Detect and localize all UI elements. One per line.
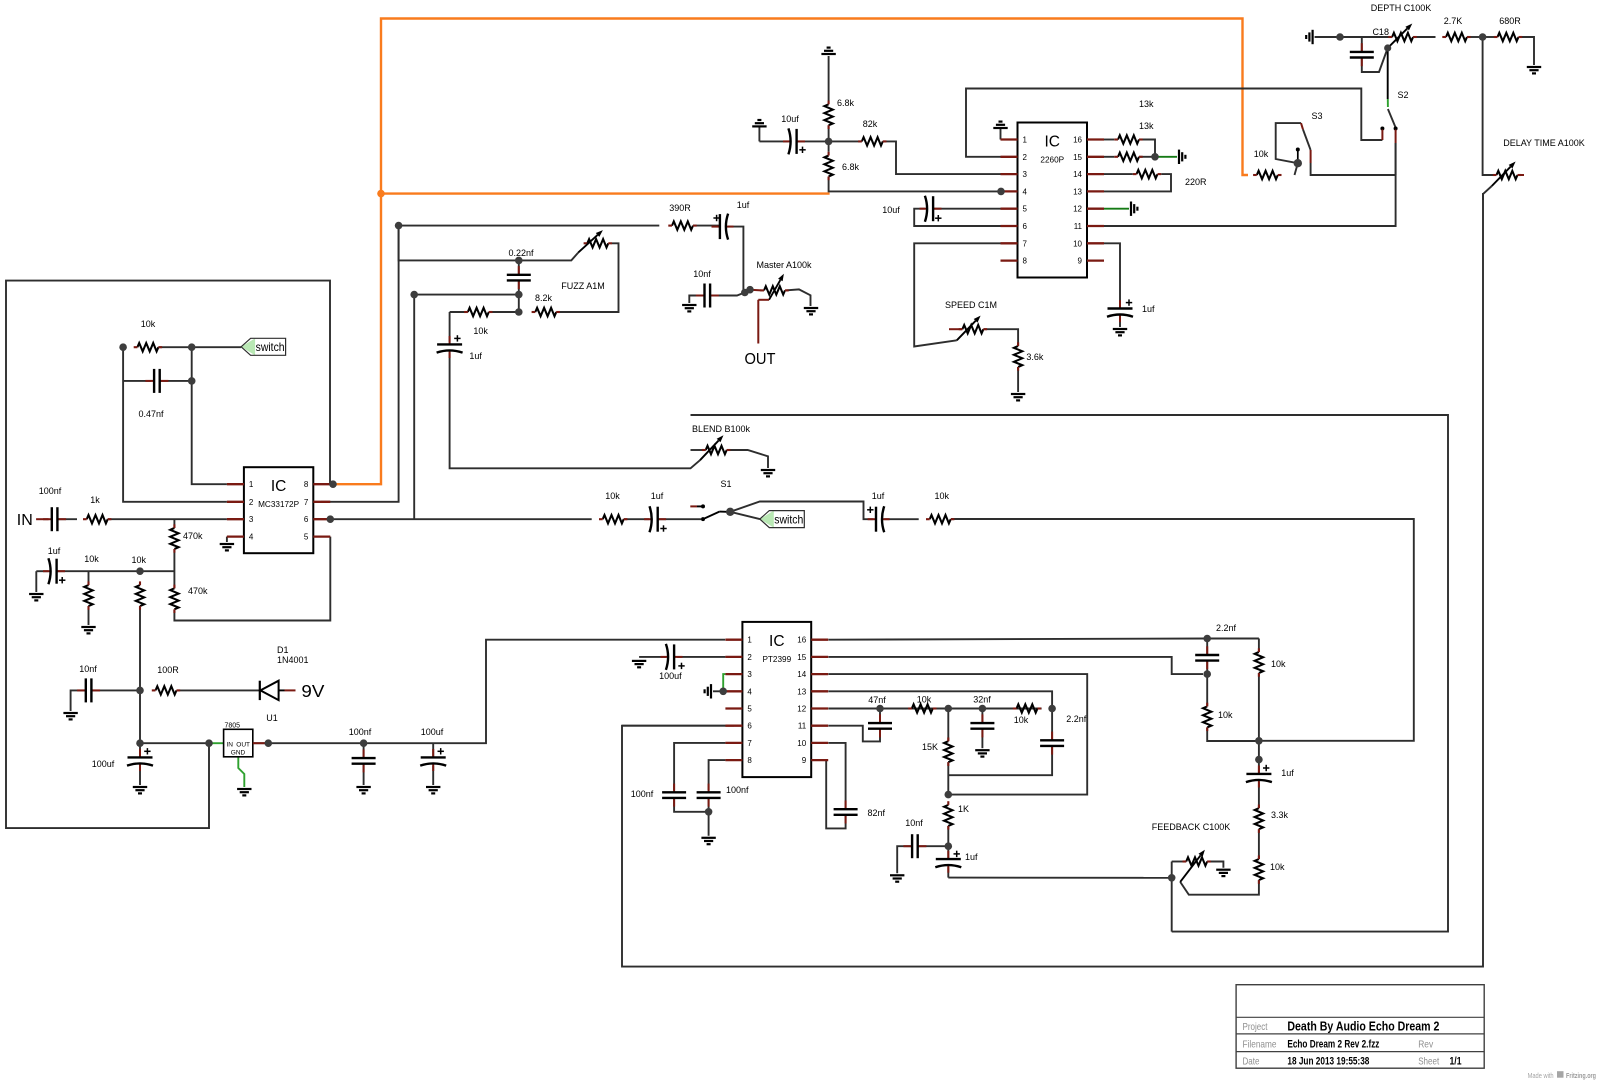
wire 47nf stem [879, 709, 881, 724]
svg-text:Sheet: Sheet [1418, 1056, 1439, 1068]
junction fb node [1255, 737, 1263, 745]
wire junction down to delay pot [1483, 37, 1497, 175]
svg-text:82k: 82k [863, 119, 878, 129]
junction 2.7K/680R [1479, 33, 1487, 41]
ground pin12 (rotated) [1131, 202, 1137, 216]
wire 1uf pt top [947, 846, 949, 859]
svg-text:Date: Date [1243, 1056, 1260, 1068]
ground 10nf supply [63, 713, 77, 719]
potentiometer FEEDBACK C100K [1180, 850, 1211, 882]
wire delay wiper down [1483, 186, 1492, 200]
wire 10k to switch-flag node [158, 346, 241, 348]
capacitor 82nf [834, 801, 886, 824]
junction 2.2nf bottom [1203, 670, 1211, 678]
svg-text:Project: Project [1243, 1021, 1268, 1033]
svg-text:S1: S1 [720, 479, 731, 489]
text DELAY TIME A100K [1503, 138, 1585, 148]
wire pin14 to 220R [1104, 173, 1133, 175]
svg-text:8: 8 [1023, 257, 1028, 266]
wire speed right to 3.6k [983, 329, 1018, 346]
text 13k lower [1139, 121, 1154, 131]
ground 7805 [237, 789, 251, 795]
text FEEDBACK C100K [1152, 822, 1231, 832]
text 1K [958, 804, 969, 814]
junction 10k/0.47nf left [119, 343, 127, 351]
svg-text:Filename: Filename [1243, 1038, 1277, 1050]
svg-text:IC: IC [271, 478, 287, 495]
wire pin3 loop to pin4 node [723, 674, 725, 691]
wire 32nf stem [981, 709, 983, 724]
wire pin5 to 10uf [933, 208, 1000, 210]
svg-text:1uf: 1uf [469, 351, 482, 361]
svg-text:switch: switch [774, 512, 803, 526]
svg-text:Rev: Rev [1418, 1038, 1434, 1050]
svg-text:10k: 10k [84, 554, 99, 564]
wire junction to depth pot [1340, 36, 1392, 38]
wire 10k fuzz to junction [489, 311, 519, 313]
ground 1uf pin10 [1113, 329, 1127, 335]
wire 100uf pre-reg top [139, 743, 141, 757]
wire pin4 node to ground [713, 690, 723, 692]
wire 2.2nf stems [1206, 639, 1208, 656]
wire node to 82k [829, 140, 862, 142]
resistor 3.3k [1255, 805, 1263, 833]
svg-text:100uf: 100uf [421, 727, 444, 737]
svg-text:7: 7 [304, 498, 309, 507]
svg-text:FEEDBACK C100K: FEEDBACK C100K [1152, 822, 1231, 832]
wire 0.22nf stem bottom [518, 280, 520, 294]
svg-text:DEPTH C100K: DEPTH C100K [1371, 3, 1432, 13]
svg-text:10nf: 10nf [79, 664, 97, 674]
wire 2.2nf stem2 [1206, 661, 1208, 675]
wire 220R loop to pin13 [1104, 174, 1171, 191]
wire 10k fuzz left [450, 311, 468, 313]
wire blend left to box [691, 449, 706, 451]
wire 15K top [947, 709, 949, 742]
svg-text:47nf: 47nf [868, 695, 886, 705]
svg-text:13k: 13k [1139, 121, 1154, 131]
wire pin10 loop to 82nf [828, 743, 845, 809]
wire 10uf to node [797, 140, 829, 142]
wire 6.8k lower to orange node [829, 177, 1001, 192]
wire 10k fb-right stems [1258, 639, 1260, 653]
wire pin11 to S2 right throw [1104, 143, 1396, 226]
svg-text:Echo Dream 2 Rev 2.fzz: Echo Dream 2 Rev 2.fzz [1287, 1038, 1379, 1050]
svg-text:8.2k: 8.2k [535, 293, 553, 303]
svg-text:4: 4 [249, 533, 254, 542]
svg-text:32nf: 32nf [973, 695, 991, 705]
wire master right to ground [785, 289, 811, 306]
svg-text:8: 8 [747, 756, 752, 765]
svg-text:1uf: 1uf [1142, 304, 1155, 314]
wire 1uf fb to 3.3k [1258, 782, 1260, 808]
capacitor C18 [1350, 27, 1389, 66]
text IN net label [17, 512, 33, 529]
resistor 82k [858, 119, 886, 146]
resistor 6.8k lower [824, 152, 832, 180]
text 10k s3 [1254, 149, 1269, 159]
net flag switch (IC1) [241, 338, 286, 355]
svg-text:2.2nf: 2.2nf [1216, 623, 1237, 633]
capacitor 10uf bias (polarized) [781, 114, 805, 154]
text 6.8k lower [842, 162, 860, 172]
svg-text:100uf: 100uf [92, 759, 115, 769]
wire 680R to ground [1519, 37, 1535, 65]
ground 10nf master [682, 305, 696, 311]
svg-text:10k: 10k [1271, 659, 1286, 669]
svg-text:2.2nf: 2.2nf [1066, 714, 1087, 724]
svg-text:10k: 10k [605, 491, 620, 501]
capacitor 10nf supply [77, 664, 100, 702]
wire 1uf pin10 to ground [1119, 317, 1121, 327]
capacitor 0.47nf [138, 369, 168, 419]
capacitor 0.22nf [507, 248, 534, 289]
wire 10nf master left to ground [689, 296, 704, 304]
junction IC1 pin8 / box / orange [329, 480, 337, 488]
wire feedback right to ground [1207, 862, 1223, 868]
svg-text:OUT: OUT [745, 351, 777, 368]
wire 1uf pt bottom [947, 867, 949, 877]
wire pin10 to 1uf [1104, 243, 1120, 306]
svg-text:4: 4 [1023, 187, 1028, 196]
IC 2260P [1001, 123, 1105, 278]
text 3.3k [1271, 810, 1289, 820]
svg-text:3: 3 [747, 670, 752, 679]
wire 3.6k to ground [1017, 367, 1019, 392]
wire 1uf-pt to feedback [948, 877, 1171, 879]
junction 0.22nf bottom [515, 291, 523, 299]
junction master node b [746, 286, 754, 294]
svg-text:3: 3 [1023, 170, 1028, 179]
capacitor 100uf pt-supply (polarized) [659, 644, 685, 681]
svg-text:10k: 10k [1014, 715, 1029, 725]
wire 10nf to node [91, 689, 140, 691]
wire feedback left [1172, 861, 1187, 863]
svg-text:9: 9 [1078, 257, 1083, 266]
junction node A at 0.47nf [188, 377, 196, 385]
svg-text:9: 9 [802, 756, 807, 765]
wire 2.2nf mid stem [1051, 709, 1053, 741]
wire node to 7805 IN [140, 742, 207, 744]
junction 100R node [136, 687, 144, 695]
wire IC1 pin7 up to node B [321, 226, 399, 502]
svg-text:IN: IN [227, 742, 234, 749]
svg-text:7: 7 [1023, 239, 1028, 248]
svg-text:3: 3 [249, 515, 254, 524]
svg-text:S3: S3 [1311, 111, 1322, 121]
junction S1 common [726, 508, 734, 516]
wire 10nf pt to ground [897, 846, 912, 873]
wire 470k top to pin3 row [173, 519, 175, 528]
wire pin12 to ground rot [1104, 208, 1129, 210]
ground 1uf bias [29, 594, 43, 600]
wire 1uf bias left to ground [35, 571, 37, 592]
text DEPTH C100K [1371, 3, 1432, 13]
resistor 10k fuzz [464, 308, 492, 336]
text 10k fb-right [1271, 659, 1286, 669]
resistor 220R [1133, 170, 1161, 178]
junction fb node2 [1255, 756, 1263, 764]
svg-text:10k: 10k [1218, 710, 1233, 720]
resistor 13k upper [1114, 135, 1142, 143]
wire bias row left [36, 570, 48, 572]
ground master [804, 308, 818, 314]
wire 1uf to 10k s1row-b [884, 518, 919, 520]
svg-text:2260P: 2260P [1040, 156, 1064, 165]
wire 10k fb-left bottom [1207, 727, 1259, 741]
wire IC1 pin2 loop to 0.47nf/10k [123, 347, 227, 502]
op-amp IC1 MC33172P [227, 467, 330, 553]
switch S1 [690, 504, 727, 521]
svg-text:5: 5 [1023, 205, 1028, 214]
wire 10k fb-bot to feedback wiper [1180, 880, 1259, 895]
wire 1uf fb top [1258, 760, 1260, 774]
wire IC1 pin5 down-around to 470k bottom [174, 537, 330, 621]
svg-text:Made with: Made with [1528, 1071, 1554, 1080]
potentiometer DELAY TIME A100K [1492, 162, 1524, 187]
junction pin4 node [997, 188, 1005, 196]
wire bias row [57, 570, 175, 572]
resistor 10k fb-left [1203, 703, 1211, 731]
svg-text:16: 16 [797, 636, 806, 645]
wire C18 gnd to junction [1315, 36, 1340, 38]
svg-text:10k: 10k [934, 491, 949, 501]
capacitor 1uf s1-left (polarized) [644, 491, 667, 532]
junction master node a [741, 289, 749, 297]
resistor 10k feedback [134, 319, 162, 351]
svg-text:9V: 9V [301, 681, 324, 701]
capacitor 1uf pin10 (polarized) [1107, 299, 1155, 322]
wire 2.2nf to 10k fb-left [1206, 674, 1208, 706]
svg-text:12: 12 [797, 705, 806, 714]
wire 10k fb-right bottom [1258, 673, 1260, 760]
capacitor 100nf pt-b [697, 784, 749, 807]
wire 10k bias-a to ground [88, 571, 90, 585]
svg-text:PT2399: PT2399 [762, 655, 791, 664]
wire 100uf left to ground [639, 656, 666, 658]
svg-text:2: 2 [1023, 153, 1028, 162]
resistor 100R [152, 665, 180, 695]
ground pin4 (rotated left) [705, 684, 711, 698]
ground 10uf bias (inverted) [752, 120, 766, 126]
svg-text:6.8k: 6.8k [837, 98, 855, 108]
svg-text:470k: 470k [188, 586, 208, 596]
wire 0.47nf left leg [123, 380, 151, 382]
resistor 3.6k [1014, 342, 1022, 370]
svg-text:switch: switch [256, 340, 285, 354]
wire 1uf to master node [728, 227, 743, 292]
svg-text:3.6k: 3.6k [1026, 352, 1044, 362]
svg-text:MC33172P: MC33172P [258, 500, 300, 509]
svg-text:1uf: 1uf [48, 546, 61, 556]
svg-text:GND: GND [231, 750, 246, 757]
capacitor 10uf pin5 (polarized) [882, 196, 941, 222]
svg-text:1/1: 1/1 [1450, 1056, 1462, 1068]
capacitor 10nf pt [903, 818, 926, 858]
wire 15K bottom [947, 762, 949, 794]
svg-text:2: 2 [747, 653, 752, 662]
svg-text:10nf: 10nf [905, 818, 923, 828]
wire 82k to pin3 [883, 141, 1001, 174]
wire 10nf master right [710, 293, 745, 296]
ground 10nf pt [890, 875, 904, 881]
junction 100nf pair [705, 808, 713, 816]
svg-text:D1: D1 [277, 645, 289, 655]
junction 1K top [945, 791, 953, 799]
wire 32nf to ground [981, 729, 983, 749]
wire 3.3k to 10k fb-bot [1258, 829, 1260, 859]
wire 100nf pair to ground [708, 812, 710, 836]
wire 6.8k divider top gnd stem [828, 56, 830, 101]
svg-text:C18: C18 [1372, 27, 1389, 37]
svg-text:18 Jun 2013 19:55:38: 18 Jun 2013 19:55:38 [1287, 1056, 1369, 1068]
ground 3.6k [1011, 394, 1025, 400]
ground 100uf pre-reg [133, 787, 147, 793]
svg-text:13k: 13k [1139, 99, 1154, 109]
wire 8.2k to fuzz right [556, 243, 618, 312]
wire 10k to 1uf s1 [624, 518, 650, 520]
wire node B down/right to fuzz wiper [399, 226, 579, 261]
junction 8.2k row [515, 308, 523, 316]
wire 10nf left to ground [71, 690, 86, 711]
ground 10k bias-a [81, 627, 95, 633]
capacitor 100nf pt-a [631, 784, 686, 807]
junction 15K top [945, 705, 953, 713]
svg-text:BLEND B100k: BLEND B100k [692, 424, 751, 434]
svg-text:6: 6 [747, 722, 752, 731]
junction orange net [377, 190, 385, 198]
wire input-section enclosure loop [6, 281, 330, 829]
wire pin8 down to 100nf-b [709, 760, 726, 790]
resistor 1k input [83, 495, 111, 523]
svg-text:1: 1 [249, 480, 254, 489]
wire pin6 left [622, 725, 725, 727]
wire node A down to 0.47nf [192, 347, 227, 484]
ground 100uf pt [632, 661, 646, 667]
svg-text:7805: 7805 [225, 723, 241, 730]
text 470k lower [188, 586, 208, 596]
resistor 10k fb-bot [1255, 855, 1263, 883]
wire node B to 390R [399, 225, 660, 227]
resistor 2.7K [1442, 16, 1470, 41]
wire 0.22nf row to left drop [414, 294, 519, 296]
resistor 13k lower [1114, 153, 1142, 161]
svg-text:1N4001: 1N4001 [277, 655, 309, 665]
wire 82nf bottom to pin9 [826, 760, 845, 828]
wire feedback net vertical [1171, 862, 1173, 932]
svg-text:1uf: 1uf [872, 491, 885, 501]
text 13k upper [1139, 99, 1154, 109]
wire 0.47nf right leg [160, 380, 192, 382]
resistor 10k mid-a [908, 695, 936, 713]
svg-text:10k: 10k [917, 695, 932, 705]
capacitor 1uf bias (polarized) [43, 546, 65, 584]
capacitor 2.2nf fb-top [1195, 623, 1236, 669]
wire 100uf post-reg top [432, 743, 434, 757]
wire 1uf to S1 contact [658, 518, 701, 520]
svg-text:OUT: OUT [236, 742, 250, 749]
wire pin13 loop [828, 691, 1052, 708]
svg-text:S2: S2 [1397, 90, 1408, 100]
svg-text:8: 8 [304, 480, 309, 489]
wire 10uf ground stem [758, 127, 760, 141]
wire 2.7K to junction [1467, 36, 1483, 38]
wire S1 to switch flag [730, 512, 760, 519]
svg-text:470k: 470k [183, 531, 203, 541]
ground 100nf pair [701, 838, 715, 844]
wire junction to ground rot [1155, 156, 1177, 158]
svg-text:1: 1 [1023, 136, 1028, 145]
wire 10uf loop to pin6 [914, 209, 1000, 226]
wire 6.8k lower stems [828, 141, 830, 151]
wire pin15 to 13k lower [1104, 156, 1114, 158]
capacitor 100nf post-reg [349, 727, 376, 772]
wire S2 net vertical [1395, 143, 1397, 175]
text S1 [720, 479, 731, 489]
svg-text:11: 11 [798, 722, 807, 731]
capacitor 32nf [970, 695, 994, 738]
svg-text:1uf: 1uf [651, 491, 664, 501]
wire pin1 ground stem [1000, 128, 1002, 140]
resistor 390R [668, 203, 696, 230]
capacitor 47nf [868, 695, 892, 737]
junction S3 common [1294, 159, 1302, 167]
wire pin12 row [828, 708, 1041, 710]
resistor 470k lower [170, 585, 178, 613]
svg-text:1K: 1K [958, 804, 969, 814]
potentiometer DEPTH C100K [1388, 24, 1417, 49]
wire C18 stem top [1361, 37, 1363, 52]
capacitor 10nf master [693, 269, 719, 308]
wire 100uf post-reg to ground [432, 766, 434, 785]
junction bias row at 10k-2 [136, 567, 144, 575]
wire pin14 loop [828, 674, 1087, 795]
svg-text:4: 4 [747, 687, 752, 696]
resistor 10k fb-right [1255, 648, 1263, 676]
svg-text:1k: 1k [90, 495, 100, 505]
wire 0.22nf stem top [518, 260, 520, 274]
svg-text:15: 15 [797, 653, 806, 662]
wire 7805 GND lead [238, 757, 244, 787]
ground IC1 pin4 [220, 544, 234, 550]
wire 100uf pre-reg to ground [139, 766, 141, 785]
wire 10nf pt right [918, 845, 949, 847]
svg-text:6: 6 [1023, 222, 1028, 231]
svg-text:10k: 10k [1270, 862, 1285, 872]
junction 100nf post-reg [360, 739, 368, 747]
wire OUT stub [757, 300, 759, 344]
ground 680R [1527, 67, 1541, 73]
svg-text:10nf: 10nf [693, 269, 711, 279]
capacitor 1uf pt (polarized) [935, 851, 978, 873]
resistor 6.8k upper [824, 101, 832, 129]
svg-text:13: 13 [1073, 187, 1082, 196]
junction 2.2nf mid [1048, 705, 1056, 713]
wire pin6 row to S1 [330, 518, 591, 520]
svg-text:10uf: 10uf [882, 205, 900, 215]
text 10k fb-left [1218, 710, 1233, 720]
svg-text:10k: 10k [1254, 149, 1269, 159]
svg-text:2: 2 [249, 498, 254, 507]
junction 7805 IN node [205, 739, 213, 747]
junction left drop [410, 291, 418, 299]
wire delay bottom long run [622, 193, 1483, 967]
svg-text:IC: IC [1045, 134, 1061, 151]
switch S2 [1380, 48, 1397, 143]
svg-text:IN: IN [17, 512, 33, 529]
text 10k bias-a [84, 554, 99, 564]
junction 2.2nf top [1203, 635, 1211, 643]
